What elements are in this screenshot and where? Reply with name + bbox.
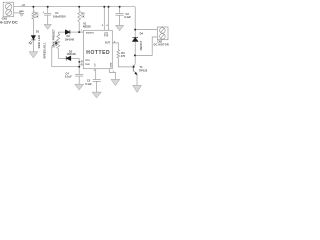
svg-text:TRG: TRG xyxy=(85,60,90,62)
svg-text:DC MOTOR: DC MOTOR xyxy=(154,44,169,47)
svg-text:0.1uF: 0.1uF xyxy=(85,82,92,86)
svg-text:SPEED ADJ.: SPEED ADJ. xyxy=(42,42,46,59)
svg-text:GND: GND xyxy=(19,11,24,13)
svg-text:TIP122: TIP122 xyxy=(139,68,148,72)
svg-text:0.1uF: 0.1uF xyxy=(65,74,72,78)
svg-text:CV: CV xyxy=(95,63,97,67)
svg-text:4: 4 xyxy=(106,24,108,27)
svg-text:NE555: NE555 xyxy=(83,24,91,28)
svg-text:8: 8 xyxy=(102,25,104,27)
svg-text:DSCHG: DSCHG xyxy=(86,33,94,35)
svg-text:0.1uF: 0.1uF xyxy=(124,15,131,19)
svg-text:OUT: OUT xyxy=(105,42,111,45)
svg-text:470: 470 xyxy=(121,54,126,58)
svg-text:100uF/25V: 100uF/25V xyxy=(53,15,66,19)
svg-text:D1: D1 xyxy=(36,29,40,33)
svg-text:100K PRESET: 100K PRESET xyxy=(52,29,56,48)
svg-text:HOTTED: HOTTED xyxy=(86,50,110,56)
svg-text:RST: RST xyxy=(107,31,109,36)
svg-text:D4: D4 xyxy=(140,31,144,35)
svg-text:RED LED: RED LED xyxy=(37,35,41,48)
svg-text:1N4148: 1N4148 xyxy=(65,37,75,41)
svg-text:6-12V DC: 6-12V DC xyxy=(0,20,18,25)
svg-text:1K: 1K xyxy=(81,15,84,19)
svg-text:+V: +V xyxy=(21,3,25,7)
svg-text:GND: GND xyxy=(110,62,112,67)
svg-text:1N4148: 1N4148 xyxy=(67,52,77,56)
svg-text:VCC: VCC xyxy=(104,31,106,36)
svg-text:1N4007: 1N4007 xyxy=(139,40,143,50)
svg-text:C1: C1 xyxy=(55,11,59,15)
svg-text:1K: 1K xyxy=(35,15,38,19)
svg-text:THR: THR xyxy=(85,64,90,66)
